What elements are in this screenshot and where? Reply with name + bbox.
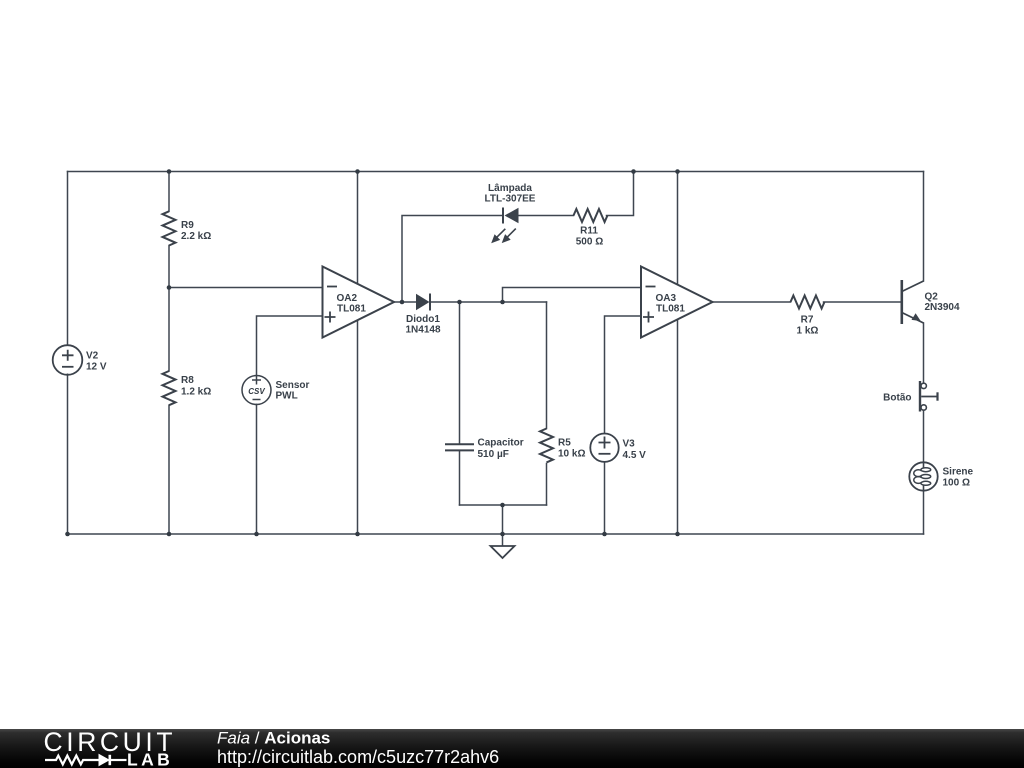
voltage source V2 xyxy=(53,345,83,375)
svg-text:LAB: LAB xyxy=(127,750,173,768)
svg-text:R11: R11 xyxy=(580,226,598,237)
wire diode cathode to R5 top xyxy=(430,301,547,303)
wire OA2 output up to LED xyxy=(402,216,503,303)
resistor R7 (horizontal) xyxy=(791,296,825,309)
svg-text:Q2: Q2 xyxy=(925,292,939,303)
svg-text:V2: V2 xyxy=(86,351,99,362)
wire vertical crossing net at x677 xyxy=(677,172,679,535)
svg-text:http://circuitlab.com/c5uzc77r: http://circuitlab.com/c5uzc77r2ahv6 xyxy=(217,747,499,767)
node bottom rail V3 xyxy=(602,532,607,537)
CircuitLab logo wordmark xyxy=(44,727,177,768)
svg-text:TL081: TL081 xyxy=(337,304,366,315)
svg-text:TL081: TL081 xyxy=(656,304,685,315)
resistor R11 (horizontal) xyxy=(574,209,608,222)
svg-text:CSV: CSV xyxy=(248,387,265,396)
capacitor Capacitor plates xyxy=(445,444,474,450)
wire R7 to Q2 base xyxy=(824,301,902,303)
wire bottom rail xyxy=(68,533,924,535)
svg-text:510 µF: 510 µF xyxy=(478,449,509,460)
footer bar xyxy=(0,729,1024,768)
svg-text:12 V: 12 V xyxy=(86,362,107,373)
wire R5 top lead xyxy=(546,302,548,429)
wire OA2 output to diode xyxy=(395,301,417,303)
wire Q2 emitter to button xyxy=(923,323,925,383)
LED emission arrows xyxy=(491,229,516,244)
resistor R9 xyxy=(163,211,176,245)
node bottom rail Sensor xyxy=(254,532,259,537)
wire LED to R11 xyxy=(519,215,574,217)
node R9/R8/OA2- xyxy=(167,285,172,290)
wire Sensor to OA2 non-inverting input xyxy=(257,316,323,376)
node OA3- branch xyxy=(500,300,505,305)
svg-text:R7: R7 xyxy=(801,315,814,326)
svg-text:1N4148: 1N4148 xyxy=(405,325,440,336)
node top rail / R9 xyxy=(167,169,172,174)
wire Sensor bottom xyxy=(256,404,258,534)
node bottom rail ground xyxy=(500,532,505,537)
svg-text:10 kΩ: 10 kΩ xyxy=(558,449,585,460)
wire sirene to bottom rail xyxy=(923,491,925,534)
wire capacitor top lead xyxy=(459,302,461,443)
LED Lâmpada (points left) xyxy=(491,208,518,244)
svg-text:R8: R8 xyxy=(181,375,194,386)
resistor R5 xyxy=(540,429,553,463)
svg-text:Faia / Acionas: Faia / Acionas xyxy=(217,729,330,748)
node top rail / x357 xyxy=(355,169,360,174)
svg-text:Sirene: Sirene xyxy=(943,467,974,478)
wire left column V2 bottom xyxy=(67,374,69,534)
wire R9-R8 middle segment xyxy=(168,246,170,372)
svg-text:1 kΩ: 1 kΩ xyxy=(797,326,819,337)
wire R5 bottom lead xyxy=(546,464,548,506)
node bottom rail R8 xyxy=(167,532,172,537)
wire top rail xyxy=(68,171,924,173)
node capacitor bottom bus xyxy=(500,503,505,508)
op-amp OA2 xyxy=(323,267,395,338)
op-amp OA3 xyxy=(641,267,713,338)
pushbutton Botão xyxy=(920,381,938,412)
svg-text:100 Ω: 100 Ω xyxy=(943,478,970,489)
diode Diodo1 xyxy=(416,294,430,311)
svg-text:2.2 kΩ: 2.2 kΩ xyxy=(181,231,211,242)
svg-text:LTL-307EE: LTL-307EE xyxy=(485,193,536,204)
node top rail / R11 xyxy=(631,169,636,174)
wire vertical crossing net at x357 xyxy=(357,172,359,535)
svg-text:500 Ω: 500 Ω xyxy=(576,237,603,248)
wire V3 to OA3 non-inverting input xyxy=(605,316,642,434)
svg-text:PWL: PWL xyxy=(276,391,298,402)
node capacitor top xyxy=(457,300,462,305)
svg-text:Capacitor: Capacitor xyxy=(478,438,524,449)
lamp/speaker Sirene xyxy=(909,462,937,490)
svg-text:Sensor: Sensor xyxy=(276,380,310,391)
svg-text:R9: R9 xyxy=(181,220,194,231)
wire OA2 inverting input xyxy=(169,287,323,289)
svg-text:Botão: Botão xyxy=(883,393,911,404)
node OA2 output xyxy=(400,300,405,305)
voltage source V3 xyxy=(590,434,618,462)
svg-text:2N3904: 2N3904 xyxy=(925,302,960,313)
node top rail / x677 xyxy=(675,169,680,174)
wire OA3 output to R7 xyxy=(713,301,791,303)
wire R8 bottom lead xyxy=(168,405,170,534)
svg-text:OA3: OA3 xyxy=(656,293,677,304)
ground xyxy=(491,546,515,558)
wire left column V2 top xyxy=(67,172,69,346)
wire node to bottom rail at x502 xyxy=(502,505,504,534)
wire capacitor/R5 bottom bus xyxy=(460,504,547,506)
wire capacitor bottom lead xyxy=(459,451,461,505)
wire ground stem xyxy=(502,534,504,546)
wire to OA3 inverting input xyxy=(503,288,642,303)
svg-text:Diodo1: Diodo1 xyxy=(406,314,440,325)
svg-text:V3: V3 xyxy=(623,439,636,450)
node bottom rail x677 xyxy=(675,532,680,537)
resistor R8 xyxy=(163,371,176,405)
svg-text:R5: R5 xyxy=(558,438,571,449)
source Sensor (CSV/PWL) xyxy=(242,376,271,405)
node bottom rail x357 xyxy=(355,532,360,537)
wire V3 bottom xyxy=(604,462,606,534)
transistor Q2 xyxy=(902,280,924,324)
svg-text:OA2: OA2 xyxy=(337,293,358,304)
node bottom rail V2 xyxy=(65,532,70,537)
CircuitLab logo resistor+diode xyxy=(45,755,127,765)
wire R11 to top rail xyxy=(607,172,634,216)
wire Q2 collector to top rail xyxy=(923,172,925,282)
svg-text:4.5 V: 4.5 V xyxy=(623,450,647,461)
wire R9 top lead xyxy=(168,172,170,212)
svg-text:1.2 kΩ: 1.2 kΩ xyxy=(181,387,211,398)
wire button to sirene xyxy=(923,410,925,462)
